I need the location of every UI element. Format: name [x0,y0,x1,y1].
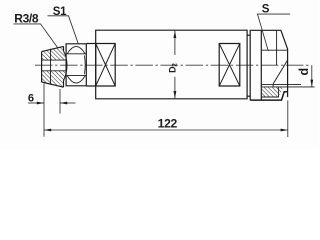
svg-text:R3/8: R3/8 [14,12,39,26]
tip thread boundary [50,49,52,85]
main body rectangle [96,30,247,99]
dimension d segment [311,65,313,87]
nut flat line upper [66,53,86,55]
leader S1 [48,16,79,44]
tip bore bottom line [42,70,67,72]
centerline [35,64,309,66]
tip hatch bottom band [42,71,66,87]
dimension 6 left extension line [43,84,45,137]
dimension D2 lower segment [174,77,176,99]
svg-text:122: 122 [158,117,178,131]
right thread box [219,44,240,87]
arrowhead D2 down [174,91,177,99]
taper tip outline R3/8 [42,46,64,87]
hex head flat boundary [261,49,287,51]
arrowhead 6 right [60,102,67,105]
dimension 6 right extension line [59,89,61,114]
neck lines nut to body [86,44,95,87]
neck right bottom edge [247,95,250,97]
thread minor line [261,83,301,85]
dimension D2 upper segment [174,30,176,55]
hex head S top and chamfer [261,30,287,97]
neck right top edge [247,34,250,36]
thread section right boundary [273,84,278,97]
hex head face line [276,30,278,65]
tip hatch top band [42,46,66,60]
dimension 122 line [44,129,288,131]
svg-text:S: S [262,4,270,16]
arrowhead 122 left [44,129,51,132]
collar washer [250,30,261,100]
svg-text:d: d [297,68,311,75]
dimension 6 left arrow tail [28,102,44,104]
leader S [257,14,290,51]
arrowhead 122 right [281,129,288,132]
svg-text:6: 6 [28,93,34,105]
thread section hatch right [262,87,283,97]
left thread box [96,44,116,87]
dimension 6 right arrow tail [60,102,76,104]
arrowhead 6 left [37,102,44,105]
nut chamfer arc bottom [67,76,85,83]
hex head bottom section outline [250,92,287,100]
right thread box X [219,44,240,87]
nut chamfer arc top [67,46,85,53]
nut flat line lower [66,75,86,77]
svg-text:S1: S1 [53,6,67,18]
thread section bottom line [261,96,279,98]
tip cone base arc [64,51,68,81]
left thread box X [96,44,116,87]
dimension 122 right extension line [287,100,289,137]
tip bore top line [42,59,67,61]
thread major line extension for d [261,86,314,88]
hex nut S1 outline [66,44,86,86]
arrowhead d down [310,80,313,87]
arrowhead D2 up [174,31,177,39]
nut middle band right arc [83,56,86,75]
leader R3/8 [14,24,58,48]
internal chamfer cone line [273,60,287,84]
